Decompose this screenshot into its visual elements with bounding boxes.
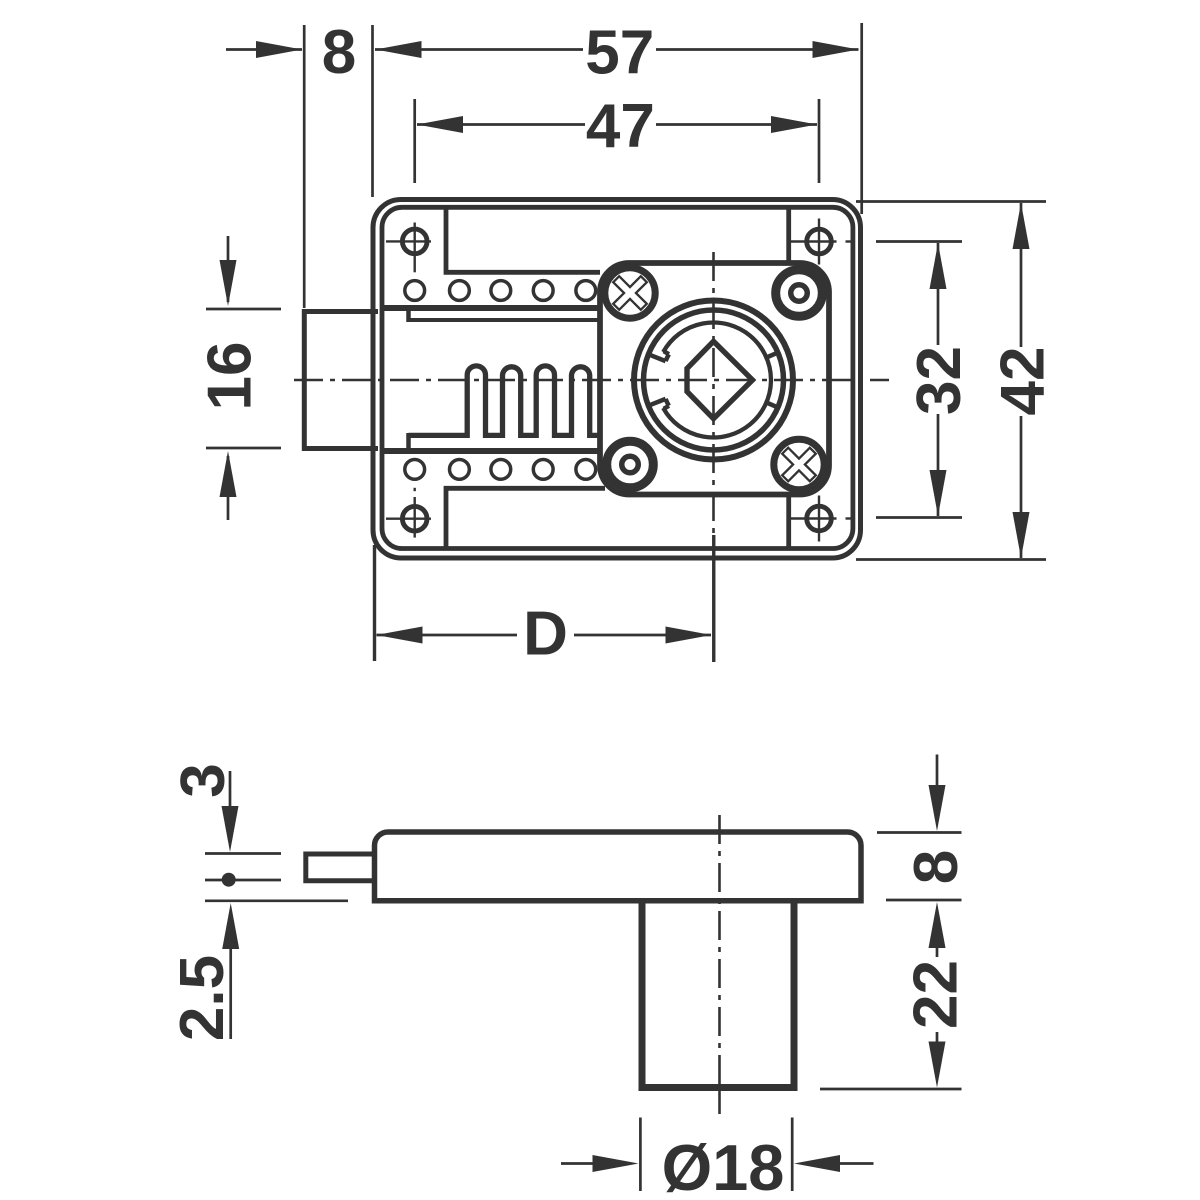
side view centerline bbox=[718, 815, 721, 1088]
svg-text:16: 16 bbox=[195, 342, 264, 411]
mounting hole bottom-right bbox=[807, 506, 832, 531]
dim 3 arrow bbox=[229, 771, 232, 807]
dim 22 arrow bottom bbox=[936, 1032, 939, 1042]
lock body inner outline bbox=[382, 207, 853, 548]
mounting hole top-right bbox=[807, 229, 832, 254]
svg-text:Ø18: Ø18 bbox=[662, 1131, 785, 1200]
dim D right extension line (cylinder axis) bbox=[712, 535, 715, 662]
upper channel thin line bbox=[409, 318, 601, 322]
dim 8 arrow bbox=[226, 48, 302, 51]
dim 47 right extension line bbox=[818, 99, 821, 183]
cam notch radial steps bbox=[664, 351, 669, 354]
svg-text:57: 57 bbox=[585, 18, 654, 87]
horizontal centerline bbox=[294, 379, 889, 382]
pin screw bottom-left bbox=[607, 441, 654, 488]
latch channel lower thick edge bbox=[381, 448, 600, 454]
dim 42 extension lines bbox=[856, 200, 1046, 203]
dim 2.5 dot + extension line (latch bottom) bbox=[205, 879, 281, 882]
vertical centerline (cylinder axis) bbox=[712, 252, 715, 534]
spring (meander on lower channel line) bbox=[409, 366, 601, 436]
svg-text:D: D bbox=[523, 599, 568, 668]
pin screw top-right bbox=[776, 270, 823, 317]
cam notch upper-left bbox=[666, 354, 669, 361]
svg-text:22: 22 bbox=[901, 960, 970, 1029]
dim 3 extension line (latch top) bbox=[205, 852, 281, 855]
dim 2.5 extension line (plate bottom) bbox=[205, 899, 348, 902]
cylinder outer bezel circle bbox=[634, 301, 793, 460]
top row of rivet holes bbox=[405, 281, 425, 301]
dim D left extension line bbox=[373, 545, 376, 661]
lock body outer outline bbox=[373, 200, 861, 559]
svg-text:42: 42 bbox=[988, 347, 1057, 416]
dim D line bbox=[377, 634, 518, 637]
dim 32 extension lines bbox=[876, 240, 962, 243]
bottom-left hole centerline dot bbox=[414, 488, 416, 491]
dim 42 arrows bbox=[1013, 203, 1030, 249]
svg-text:32: 32 bbox=[905, 346, 974, 415]
phillips screw bottom-right bbox=[774, 439, 824, 489]
top-left stamped plate cutout bbox=[446, 207, 600, 272]
phillips screw top-left bbox=[605, 268, 655, 318]
cylinder flange circle bbox=[644, 310, 784, 450]
dim 8 (side) arrows bbox=[936, 755, 939, 786]
dim 32 arrows bbox=[930, 243, 947, 289]
dim 8 (side) extension line plate top bbox=[877, 831, 962, 834]
svg-text:47: 47 bbox=[586, 92, 655, 161]
bottom-left stamped plate cutout bbox=[446, 488, 605, 548]
dim 16 extension lines bbox=[206, 308, 281, 311]
dim 47 line bbox=[417, 123, 585, 126]
dim 8 extension line (latch left) bbox=[303, 25, 306, 308]
latch bolt (top view) bbox=[304, 312, 378, 449]
mounting hole top-left bbox=[402, 229, 427, 254]
svg-text:2.5: 2.5 bbox=[168, 955, 237, 1041]
dim 22 extension line (cylinder bottom) bbox=[820, 1088, 962, 1091]
side view plate bbox=[375, 832, 862, 901]
dim 57 left extension line bbox=[371, 25, 374, 197]
dim 8/22 shared extension line (plate bottom) bbox=[886, 899, 962, 902]
cylinder core circle (broken at left notches) bbox=[663, 323, 771, 438]
top-right stamped plate cutout bbox=[786, 207, 791, 263]
dim 57 line bbox=[375, 48, 583, 51]
svg-text:3: 3 bbox=[169, 763, 238, 797]
side view cylinder bbox=[642, 900, 794, 1088]
cam notch lower-left bbox=[666, 399, 669, 406]
bottom row of rivet holes bbox=[405, 460, 425, 480]
dim 16 arrows bbox=[227, 236, 230, 302]
cylinder mounting plate bbox=[600, 263, 829, 495]
square spindle hole bbox=[687, 341, 753, 418]
lower channel step bbox=[406, 433, 411, 453]
dim O18 extension lines bbox=[639, 1118, 642, 1192]
side view latch bolt bbox=[306, 854, 377, 881]
latch channel upper thick edge bbox=[381, 305, 600, 311]
bottom-right stamped plate cutout bbox=[786, 495, 791, 549]
svg-text:8: 8 bbox=[902, 850, 971, 884]
dim 47 left extension line bbox=[413, 99, 416, 183]
svg-text:8: 8 bbox=[322, 18, 356, 87]
dim O18 arrows bbox=[561, 1162, 594, 1165]
dim 2.5 arrow bbox=[222, 903, 239, 949]
dim 57 right extension line bbox=[860, 23, 863, 214]
upper channel step bbox=[406, 306, 411, 323]
mounting hole bottom-left bbox=[402, 506, 427, 531]
